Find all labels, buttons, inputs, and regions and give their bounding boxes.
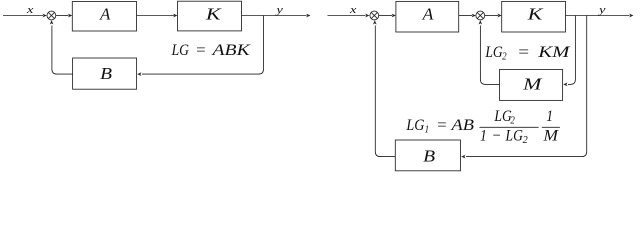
svg-text:−: − [492,128,502,145]
svg-text:B: B [100,64,113,83]
svg-text:2: 2 [502,52,507,63]
svg-text:y: y [598,4,606,16]
svg-text:2: 2 [523,135,529,146]
svg-text:LG: LG [485,44,504,61]
svg-text:A: A [422,5,434,24]
svg-text:1: 1 [425,125,429,136]
svg-text:KM: KM [537,44,572,61]
svg-text:=: = [436,117,447,134]
svg-text:AB: AB [450,117,474,134]
svg-text:x: x [26,4,34,16]
svg-text:y: y [275,4,283,16]
svg-text:K: K [526,5,544,24]
svg-text:M: M [522,75,543,94]
svg-text:ABK: ABK [211,42,251,59]
svg-text:M: M [542,128,559,145]
svg-text:LG: LG [406,117,425,134]
svg-text:LG: LG [494,108,513,125]
svg-text:1: 1 [480,128,487,145]
svg-text:K: K [205,5,223,24]
svg-text:x: x [349,4,357,16]
svg-text:B: B [423,146,436,165]
svg-text:=: = [517,44,530,61]
svg-text:1: 1 [546,108,553,125]
svg-text:LG: LG [505,128,524,145]
svg-text:LG: LG [171,42,190,59]
svg-text:=: = [195,42,206,59]
svg-text:2: 2 [510,116,515,127]
svg-text:A: A [99,4,111,23]
